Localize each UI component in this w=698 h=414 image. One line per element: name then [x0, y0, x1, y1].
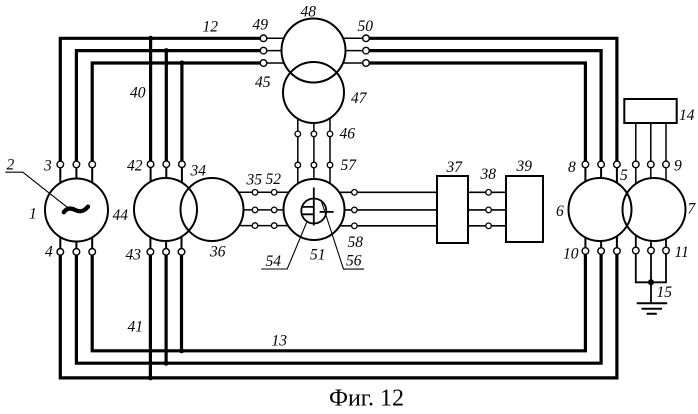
- wire bus 12 right phase B to node 8: [366, 51, 601, 165]
- wire drop 40 phase C: [180, 63, 183, 164]
- node 50 terminals: [363, 35, 370, 66]
- node 38 terminals: [486, 190, 492, 229]
- wire stubs transformer 48 right terminals 50: [313, 38, 366, 63]
- wire stubs node 8 to machine 6: [585, 164, 617, 195]
- node 43 terminals: [147, 249, 185, 256]
- wire bus 12 phase B top: [76, 51, 263, 165]
- wire block 37 to block 39 terminals 38: [468, 192, 506, 226]
- svg-text:38: 38: [480, 166, 497, 183]
- node 52 terminals: [271, 190, 277, 229]
- block 37: [437, 176, 468, 243]
- svg-text:4: 4: [45, 244, 53, 261]
- svg-text:44: 44: [113, 207, 129, 224]
- svg-text:6: 6: [556, 203, 564, 220]
- svg-text:14: 14: [679, 107, 695, 124]
- wire stubs node 3 to generator 1: [60, 164, 92, 195]
- svg-text:46: 46: [340, 126, 356, 143]
- svg-text:2: 2: [7, 157, 15, 174]
- svg-text:47: 47: [351, 90, 368, 107]
- node 8 terminals: [582, 161, 620, 168]
- svg-text:8: 8: [568, 159, 576, 176]
- svg-text:15: 15: [657, 284, 673, 301]
- svg-text:Фиг. 12: Фиг. 12: [329, 386, 404, 412]
- wire bus 12 right phase C to node 8: [366, 63, 585, 164]
- svg-text:13: 13: [272, 333, 288, 350]
- wire transformer 36 to converter 51 terminals 35 52: [212, 192, 314, 225]
- wire machine terminals 11 to ground: [636, 220, 666, 302]
- svg-text:7: 7: [688, 201, 697, 218]
- wire stubs node 42 to transformer 34: [151, 164, 182, 195]
- svg-text:9: 9: [674, 158, 682, 175]
- wire transformer 47 to converter 51 terminals 46 57: [298, 100, 330, 200]
- leader label 56: [321, 200, 364, 269]
- wire block 14 to machine terminals 9: [636, 123, 666, 200]
- transformer 34 36: [134, 178, 244, 241]
- leader label 2: [5, 172, 67, 207]
- wire drop 41 phase B: [165, 252, 168, 363]
- svg-text:40: 40: [130, 85, 146, 102]
- wire bus 12 phase A top: [60, 38, 263, 164]
- wire drop 41 phase C: [180, 252, 183, 351]
- generator 1: [45, 179, 108, 242]
- svg-text:56: 56: [346, 253, 362, 270]
- svg-text:48: 48: [301, 4, 317, 21]
- transformer 48 47: [282, 19, 346, 124]
- ground 15: [637, 303, 668, 313]
- svg-text:54: 54: [266, 253, 282, 270]
- svg-text:51: 51: [310, 246, 326, 263]
- wire drop 40 phase A: [149, 38, 152, 164]
- wire bus 13 phase B bottom: [76, 251, 601, 363]
- svg-text:11: 11: [675, 244, 689, 261]
- leader label 54: [261, 223, 306, 270]
- machine 5 6 7: [569, 178, 686, 241]
- svg-text:45: 45: [255, 74, 271, 91]
- wire stubs transformer 34 to node 43: [150, 225, 181, 252]
- junction dots bus 13: [148, 348, 184, 380]
- svg-text:37: 37: [446, 159, 464, 176]
- svg-text:49: 49: [253, 16, 269, 33]
- svg-text:39: 39: [516, 158, 533, 175]
- node 4 terminals: [57, 249, 95, 256]
- wire bus 13 phase A bottom: [60, 251, 617, 378]
- node 35 terminals: [252, 190, 258, 229]
- block 39: [506, 176, 543, 242]
- svg-text:3: 3: [43, 157, 52, 174]
- wire drop 41 phase A: [149, 252, 152, 378]
- junction dots bus 12: [148, 36, 184, 66]
- node 49 45 terminals: [260, 35, 267, 66]
- wire bus 13 phase C bottom: [92, 251, 585, 351]
- block 14: [624, 99, 676, 123]
- svg-text:10: 10: [563, 246, 579, 263]
- svg-text:43: 43: [126, 247, 142, 264]
- junction dot ground 15: [648, 279, 654, 285]
- svg-text:50: 50: [358, 18, 374, 35]
- svg-text:57: 57: [341, 157, 358, 174]
- node 42 terminals: [147, 161, 185, 168]
- wire bus 12 phase C top: [92, 63, 263, 164]
- wire stubs generator 1 to node 4: [60, 225, 92, 252]
- wire stubs transformer 48 left terminals 49 45: [264, 38, 314, 63]
- wire drop 40 phase B: [165, 51, 168, 165]
- node 9 terminals: [633, 161, 670, 168]
- svg-text:42: 42: [127, 157, 143, 174]
- wire stubs machine 6 to node 10: [585, 225, 617, 251]
- node 46 terminals: [295, 131, 333, 137]
- wire bus 12 right phase A to node 8: [366, 38, 617, 164]
- node 58 terminals: [352, 190, 358, 229]
- svg-text:35: 35: [246, 172, 263, 189]
- svg-text:5: 5: [620, 167, 628, 184]
- svg-text:12: 12: [203, 19, 219, 36]
- svg-text:34: 34: [190, 163, 207, 180]
- svg-text:1: 1: [29, 206, 37, 223]
- svg-text:41: 41: [128, 319, 144, 336]
- node 57 terminals: [295, 162, 333, 168]
- node 11 terminals: [633, 247, 670, 254]
- svg-text:36: 36: [209, 244, 226, 261]
- wire converter 51 to block 37 terminals 58: [314, 192, 437, 226]
- svg-text:52: 52: [266, 171, 282, 188]
- frequency converter 51: [284, 179, 345, 240]
- node 10 terminals: [582, 248, 620, 255]
- node 3 terminals: [57, 161, 95, 168]
- svg-text:58: 58: [348, 234, 364, 251]
